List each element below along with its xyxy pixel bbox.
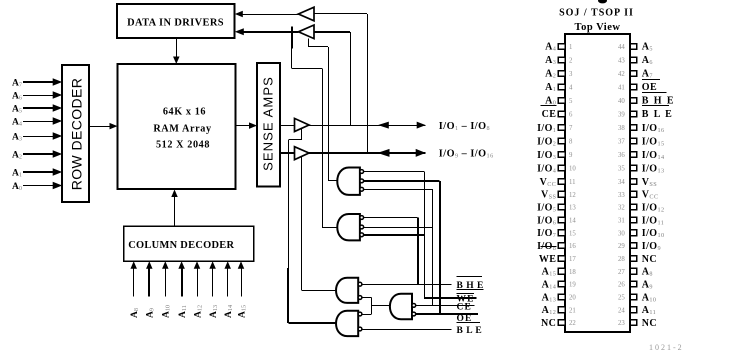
- wire G2 input 2 (CE): [363, 227, 433, 229]
- overline OE pin 41: [642, 79, 660, 81]
- svg-text:NC: NC: [642, 318, 657, 329]
- svg-text:29: 29: [618, 243, 625, 250]
- overline WE: [457, 293, 475, 295]
- pin 33 (right): [630, 191, 637, 197]
- wire vertical down to gate G2 output: [322, 68, 324, 227]
- buffer U4 output high byte (right-pointing triangle): [295, 147, 310, 160]
- wire G1 input 1 (WE): [363, 171, 424, 173]
- svg-text:32: 32: [618, 205, 625, 212]
- pin 23 (right): [630, 320, 637, 326]
- overline BLE pin 39: [642, 105, 669, 107]
- overline BHE: [457, 276, 483, 278]
- block DATA IN DRIVERS: [117, 4, 235, 38]
- node I/O1-8 bus line: [309, 125, 426, 127]
- wire gate G2 output: [322, 227, 337, 229]
- svg-text:14: 14: [569, 218, 576, 225]
- wire address input A15: [241, 267, 243, 297]
- svg-text:28: 28: [618, 256, 625, 263]
- svg-text:DATA IN DRIVERS: DATA IN DRIVERS: [127, 17, 224, 28]
- buffer U2 input driver high byte (left-pointing triangle): [298, 25, 314, 39]
- buffer U3 output low byte (right-pointing triangle): [295, 118, 310, 131]
- svg-text:33: 33: [618, 192, 625, 199]
- wire SENSE AMPS to buffer U3: [280, 125, 295, 127]
- wire vertical BHE net: [417, 218, 419, 285]
- wire address input A1: [23, 171, 55, 173]
- svg-text:NC: NC: [642, 254, 657, 265]
- pin 25 (right): [630, 294, 637, 300]
- wire buffer U3 enable jog: [288, 139, 301, 141]
- svg-text:13: 13: [569, 205, 576, 212]
- wire DATA IN DRIVERS to RAM array: [176, 38, 178, 58]
- wire address input A6: [23, 95, 55, 97]
- svg-text:42: 42: [618, 71, 625, 78]
- svg-text:22: 22: [569, 320, 576, 327]
- svg-text:8: 8: [569, 139, 573, 146]
- pin 22 (left): [558, 320, 565, 326]
- wire ROW DECODER to RAM array: [89, 126, 112, 128]
- wire vertical buffer U3 enable to gate G4 (upper): [288, 140, 290, 268]
- buffer U1 input driver low byte (left-pointing triangle): [298, 7, 314, 21]
- block COLUMN DECODER: [124, 226, 254, 261]
- wire address input A4: [23, 121, 55, 123]
- wire buffer U1 input horizontal: [314, 13, 367, 15]
- wire branch vertical thin: [291, 48, 293, 68]
- wire vertical down to gate G1 output: [328, 47, 330, 181]
- svg-text:3: 3: [569, 71, 573, 78]
- pin 39 (right): [630, 111, 637, 117]
- underline BHE / overline WE: [457, 289, 484, 291]
- block RAM Array 64K x 16: [118, 64, 236, 189]
- svg-text:ROW DECODER: ROW DECODER: [68, 78, 84, 191]
- wire vertical from U1 input down to I/O9-16 line: [367, 14, 369, 153]
- pin 26 (right): [630, 281, 637, 287]
- pin 2 (left): [558, 57, 565, 63]
- pin 9 (left): [558, 152, 565, 158]
- wire vertical from U2 input down to I/O1-8 line: [350, 32, 352, 125]
- svg-text:B L E: B L E: [457, 326, 483, 336]
- svg-text:27: 27: [618, 269, 625, 276]
- svg-text:30: 30: [618, 230, 625, 237]
- pin 3 (left): [558, 71, 565, 77]
- svg-text:COLUMN DECODER: COLUMN DECODER: [128, 240, 234, 251]
- pin 18 (left): [558, 268, 565, 274]
- wire BLE from G4 input to label: [362, 329, 452, 331]
- wire gate G4 output to buffer U3 enable (bold): [288, 322, 335, 324]
- wire vertical CE net: [432, 189, 434, 305]
- wire vertical OE net (bold): [439, 181, 441, 314]
- svg-text:5: 5: [569, 98, 573, 105]
- svg-text:37: 37: [618, 139, 625, 146]
- svg-text:512 X 2048: 512 X 2048: [156, 140, 210, 151]
- svg-text:19: 19: [569, 282, 576, 289]
- wire COLUMN DECODER to RAM array: [174, 196, 176, 226]
- pin 8 (left): [558, 138, 565, 144]
- svg-text:Top View: Top View: [575, 22, 621, 33]
- pin 28 (right): [630, 256, 637, 262]
- wire address input A5: [23, 107, 55, 109]
- wire buffer U1 output to DATA IN DRIVERS: [241, 14, 299, 16]
- pin 6 (left): [558, 111, 565, 117]
- pin 38 (right): [630, 125, 637, 131]
- pin 43 (right): [630, 57, 637, 63]
- svg-text:1: 1: [569, 44, 572, 51]
- pin 29 (right): [630, 243, 637, 249]
- pin 30 (right): [630, 230, 637, 236]
- wire branch at U2 line (bold stub): [291, 26, 293, 48]
- svg-text:CE: CE: [457, 303, 472, 313]
- pin 19 (left): [558, 281, 565, 287]
- pin 44 (right): [630, 44, 637, 50]
- pin 1 (left): [558, 44, 565, 50]
- wire buffer U2 output to DATA IN DRIVERS (bold): [241, 31, 298, 33]
- svg-text:SOJ / TSOP II: SOJ / TSOP II: [559, 7, 634, 18]
- svg-text:6: 6: [569, 111, 573, 118]
- wire address input A9: [148, 267, 150, 297]
- wire BHE from G3 input to label: [362, 284, 452, 286]
- pin 7 (left): [558, 125, 565, 131]
- overline BHE pin 40: [642, 92, 667, 94]
- partial glyph cut at top of pinout: [598, 0, 607, 3]
- pin 17 (left): [558, 256, 565, 262]
- wire gate G5 output: [371, 305, 389, 307]
- pin 15 (left): [558, 230, 565, 236]
- svg-text:43: 43: [618, 57, 625, 64]
- block SENSE AMPS: [257, 63, 280, 187]
- svg-text:4: 4: [569, 84, 573, 91]
- svg-text:18: 18: [569, 269, 576, 276]
- svg-text:26: 26: [618, 282, 625, 289]
- wire OE from G5 input to label (bold): [416, 313, 478, 315]
- wire address input A8: [133, 267, 135, 297]
- svg-text:7: 7: [569, 125, 573, 132]
- gate G3 (left-facing AND with inverting inputs): [336, 278, 358, 303]
- svg-text:40: 40: [618, 98, 625, 105]
- svg-text:21: 21: [569, 307, 576, 314]
- svg-text:36: 36: [618, 152, 625, 159]
- wire address input A12: [197, 267, 199, 297]
- wire address input A13: [212, 267, 214, 297]
- pin 32 (right): [630, 204, 637, 210]
- wire vertical WE net: [424, 172, 426, 298]
- wire G1 input 2 (OE, bold): [363, 180, 440, 182]
- chip body outline: [565, 34, 630, 332]
- wire G2 input 1 (BHE): [363, 217, 418, 219]
- wire address input A14: [227, 267, 229, 297]
- svg-text:64K x 16: 64K x 16: [163, 107, 206, 118]
- svg-text:WE: WE: [539, 254, 556, 265]
- wire address input A3: [23, 136, 55, 138]
- svg-text:SENSE AMPS: SENSE AMPS: [260, 76, 275, 171]
- svg-text:10: 10: [569, 166, 576, 173]
- svg-text:25: 25: [618, 295, 625, 302]
- wire G4 input 1 jog: [362, 314, 372, 316]
- svg-text:35: 35: [618, 166, 625, 173]
- svg-text:11: 11: [569, 179, 576, 186]
- pin 24 (right): [630, 307, 637, 313]
- gate G1 (left-facing AND with inverting inputs): [337, 168, 360, 195]
- svg-text:16: 16: [569, 243, 576, 250]
- pin 20 (left): [558, 294, 565, 300]
- wire address input A2: [23, 153, 55, 155]
- pin 16 (left): [558, 243, 565, 249]
- wire stub below buffer U2: [308, 39, 310, 47]
- pin 4 (left): [558, 84, 565, 90]
- svg-text:B L E: B L E: [642, 109, 673, 120]
- wire vertical G5 output distribution: [371, 298, 373, 315]
- svg-text:2: 2: [569, 57, 573, 64]
- svg-text:39: 39: [618, 111, 625, 118]
- wire CE from G5 input to label: [416, 305, 475, 307]
- wire G1 input 3 (CE): [363, 189, 433, 191]
- svg-text:24: 24: [618, 307, 625, 314]
- pin 27 (right): [630, 268, 637, 274]
- pin 37 (right): [630, 138, 637, 144]
- wire WE to label (bold): [424, 297, 477, 299]
- overline CE pin 6: [541, 105, 557, 107]
- pin 35 (right): [630, 165, 637, 171]
- wire address input A10: [165, 267, 167, 297]
- wire jog to gate G1 vertical: [309, 46, 329, 48]
- pin 5 (left): [558, 98, 565, 104]
- pin 21 (left): [558, 307, 565, 313]
- svg-text:NC: NC: [541, 318, 556, 329]
- pin 41 (right): [630, 84, 637, 90]
- wire vertical buffer U3 enable to gate G4 (lower, bold): [287, 268, 289, 323]
- underline OE / overline BLE: [457, 322, 480, 324]
- svg-text:15: 15: [569, 230, 576, 237]
- pin 40 (right): [630, 98, 637, 104]
- pin 34 (right): [630, 179, 637, 185]
- svg-text:9: 9: [569, 152, 573, 159]
- wire address input A0: [23, 185, 55, 187]
- node I/O9-16 bus line (bold): [309, 152, 426, 154]
- gate G2 (left-facing AND with inverting inputs): [337, 214, 360, 240]
- pin 31 (right): [630, 217, 637, 223]
- svg-text:I/O9 – I/O16: I/O9 – I/O16: [439, 149, 494, 160]
- wire G2 input 3 (WE, bold): [363, 234, 424, 236]
- svg-text:20: 20: [569, 295, 576, 302]
- wire vertical buffer U4 enable to gate G3: [301, 156, 303, 290]
- svg-text:34: 34: [618, 179, 625, 186]
- wire branch horizontal jog: [292, 68, 322, 70]
- pin 36 (right): [630, 152, 637, 158]
- svg-text:31: 31: [618, 218, 625, 225]
- pin 12 (left): [558, 191, 565, 197]
- wire into gate G1 output apex: [328, 180, 337, 182]
- block ROW DECODER: [62, 65, 89, 202]
- wire gate G3 output to buffer U4 enable: [302, 290, 336, 292]
- svg-text:RAM Array: RAM Array: [153, 124, 211, 135]
- wire buffer U2 input horizontal (bold): [314, 31, 350, 33]
- pin 11 (left): [558, 179, 565, 185]
- svg-text:12: 12: [569, 192, 576, 199]
- svg-text:I/O1 – I/O8: I/O1 – I/O8: [439, 121, 490, 132]
- pin 10 (left): [558, 165, 565, 171]
- svg-text:38: 38: [618, 125, 625, 132]
- wire SENSE AMPS to buffer U4 (bold): [280, 152, 295, 154]
- pin 14 (left): [558, 217, 565, 223]
- svg-text:41: 41: [618, 84, 625, 91]
- wire G3 input 2 jog: [362, 297, 372, 299]
- svg-text:1021-2: 1021-2: [649, 343, 684, 352]
- wire buffer U3 enable stub: [301, 129, 303, 140]
- pin 42 (right): [630, 71, 637, 77]
- svg-text:17: 17: [569, 256, 576, 263]
- gate G4 (left-facing AND with inverting inputs): [336, 311, 358, 336]
- overline WE pin 17: [541, 246, 557, 248]
- wire RAM array to SENSE AMPS: [236, 125, 252, 127]
- svg-text:23: 23: [618, 320, 625, 327]
- wire address input A11: [181, 267, 183, 297]
- svg-text:CE: CE: [542, 109, 557, 120]
- gate G5 (left-facing AND with inverting inputs): [390, 294, 412, 319]
- svg-text:44: 44: [618, 44, 625, 51]
- svg-text:OE: OE: [642, 82, 657, 93]
- wire address input A7: [23, 81, 55, 83]
- pin 13 (left): [558, 204, 565, 210]
